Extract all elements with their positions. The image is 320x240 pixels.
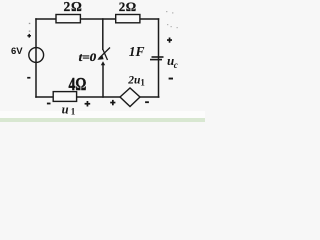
- svg-text:4Ω: 4Ω: [69, 74, 87, 94]
- svg-text:1F: 1F: [129, 44, 145, 59]
- svg-text:t=0: t=0: [79, 50, 97, 64]
- svg-text:2Ω: 2Ω: [64, 0, 83, 14]
- svg-text:2Ω: 2Ω: [119, 0, 137, 14]
- svg-text:6V: 6V: [11, 46, 23, 57]
